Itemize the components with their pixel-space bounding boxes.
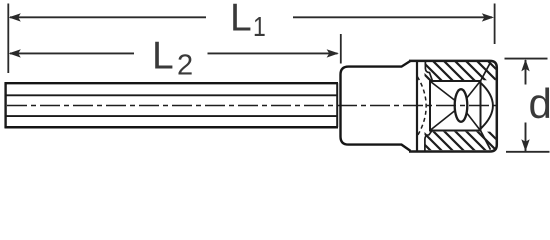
d dimension line [525, 60, 527, 85]
extension line right (body end, L1) [494, 4, 496, 45]
svg-text:d: d [529, 80, 550, 127]
arrow L2 left [9, 49, 21, 57]
bore arc (right, behind square) [481, 83, 493, 129]
dimension line L1 [10, 16, 206, 18]
square drive opening [430, 81, 481, 131]
socket body outline [409, 61, 497, 152]
arrow d down [521, 139, 529, 151]
corner chamfer diagonal bottom-right [481, 131, 491, 150]
body section face line [416, 61, 418, 151]
arrow L1 left [9, 13, 21, 21]
d extension line top [505, 58, 548, 60]
hidden bore arc (left, dashed) [417, 77, 426, 137]
arrow L2 right [327, 49, 339, 57]
hatching bottom band [409, 129, 510, 153]
arrow L1 right [482, 13, 494, 21]
svg-text:L: L [152, 35, 174, 78]
entry chamfer notch bottom [425, 131, 432, 151]
centerline (dash-dot axis) [7, 105, 499, 107]
extension line left (bit tip) [7, 4, 9, 74]
pin hole ellipse [455, 89, 468, 122]
arrow d up [521, 59, 529, 71]
chamfer X diagonals inside square [431, 82, 481, 131]
hatching top band [409, 59, 510, 83]
svg-text:L: L [230, 0, 252, 40]
socket neck outline [341, 61, 411, 151]
extension line L2 (shaft end) [340, 34, 342, 64]
corner chamfer diagonal top-right [481, 62, 491, 81]
entry chamfer notch top [425, 62, 432, 82]
d extension line bottom [506, 151, 550, 153]
svg-text:1: 1 [253, 12, 266, 43]
hex bit shaft left end edge [4, 82, 6, 128]
hex flat edge lower [5, 115, 337, 117]
shaft top edge [5, 82, 339, 84]
shaft end edge [336, 83, 338, 127]
shaft bottom edge [5, 126, 339, 129]
hex flat edge upper [5, 94, 337, 96]
svg-text:2: 2 [177, 50, 193, 82]
dimension line L2 [10, 52, 134, 54]
